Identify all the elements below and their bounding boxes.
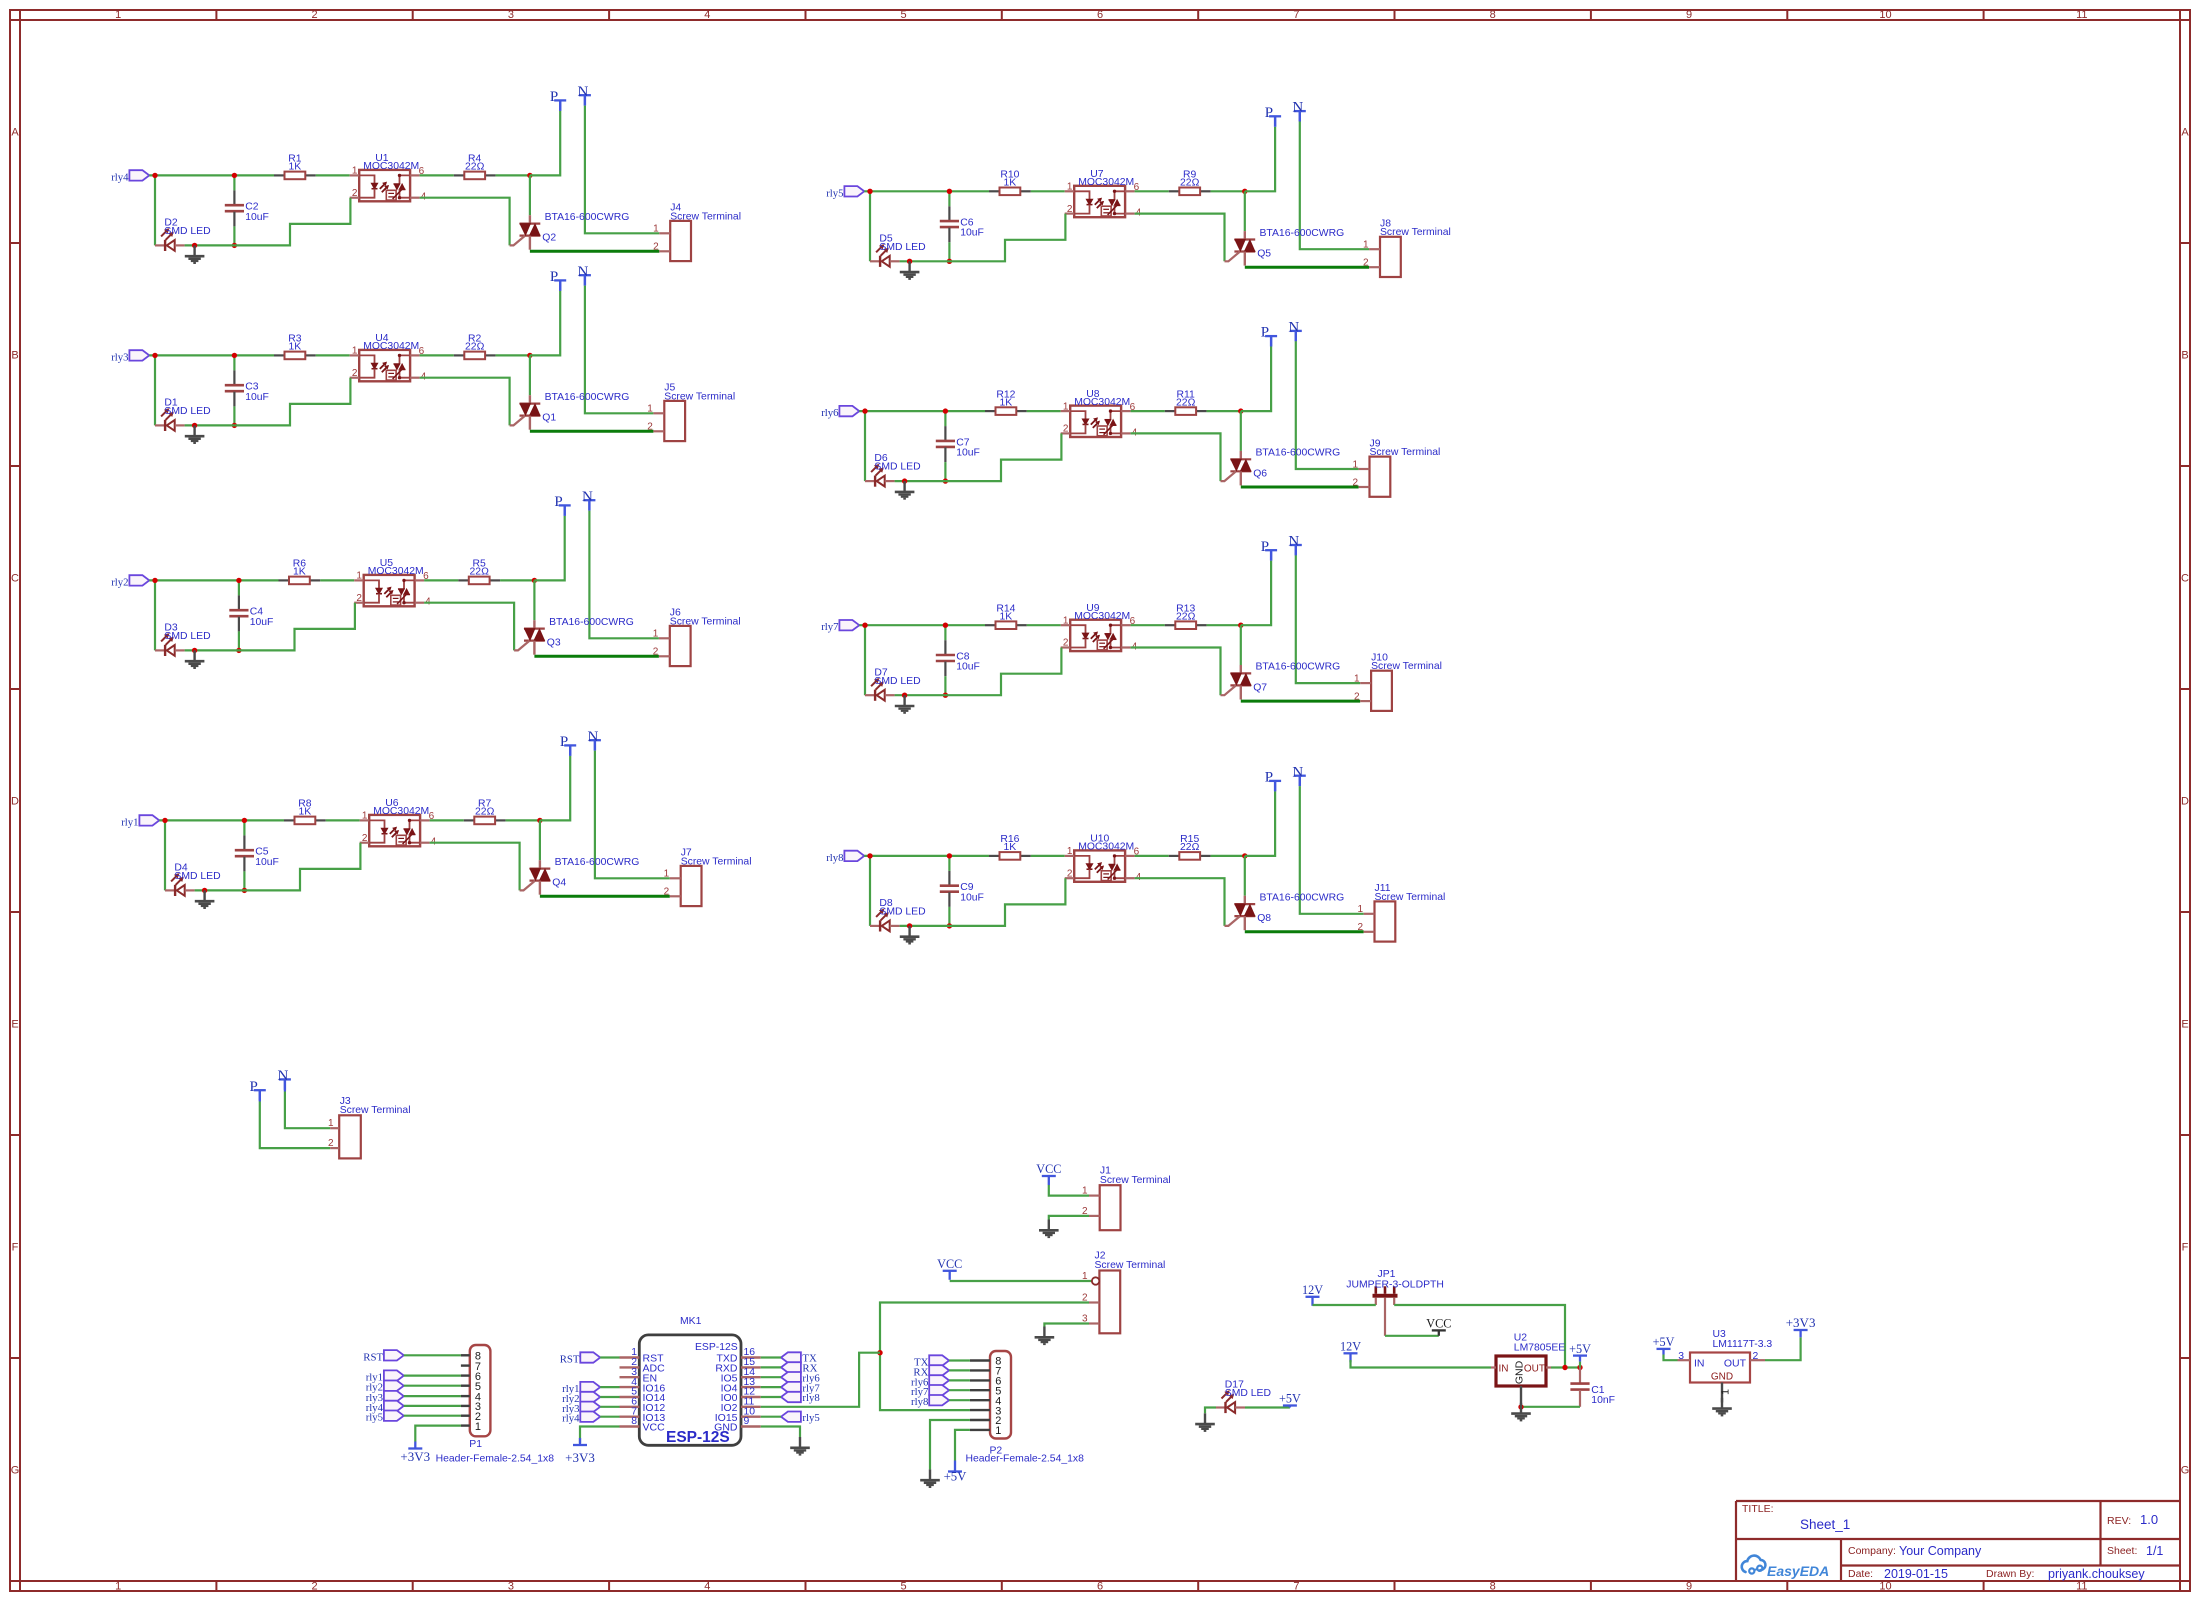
header P1 [436,1345,555,1465]
svg-text:10uF: 10uF [956,448,980,459]
svg-text:OUT: OUT [1524,1364,1545,1375]
wire [589,511,659,639]
svg-text:2019-01-15: 2019-01-15 [1884,1567,1948,1581]
wire [1240,625,1242,665]
wire [950,1280,1092,1282]
wire [1241,561,1271,626]
svg-text:2: 2 [311,9,317,21]
net flag rly6 [821,406,859,419]
wire [239,603,355,651]
svg-text:12V: 12V [1302,1283,1323,1297]
net flag rly2 [366,1381,404,1394]
svg-text:3: 3 [1678,1351,1684,1362]
junction [242,888,247,893]
svg-text:TITLE:: TITLE: [1742,1503,1774,1515]
svg-text:JP1: JP1 [1378,1269,1396,1280]
svg-text:Company:: Company: [1848,1545,1896,1557]
svg-text:P: P [550,269,558,285]
wire [1245,791,1275,856]
wire [949,1379,970,1381]
svg-text:SMD LED: SMD LED [164,406,210,417]
wire [424,579,458,581]
svg-text:MOC3042M: MOC3042M [363,341,419,352]
svg-text:BTA16-600CWRG: BTA16-600CWRG [545,392,630,403]
resistor R5 [458,559,500,584]
wire [1296,555,1360,683]
svg-text:SMD LED: SMD LED [874,676,920,687]
svg-text:N: N [587,729,598,745]
wire [1245,266,1369,269]
junction [943,408,948,413]
power flag N [587,729,600,751]
regulator U2 [1491,1333,1565,1407]
wire [285,1092,330,1129]
svg-text:GND: GND [1711,1372,1733,1383]
svg-text:8: 8 [1490,1581,1496,1593]
net flag TX [914,1355,949,1368]
svg-text:N: N [277,1068,288,1084]
net flag RX [913,1365,949,1378]
wire [864,411,866,481]
svg-text:22Ω: 22Ω [475,807,495,818]
svg-text:Screw Terminal: Screw Terminal [664,391,735,402]
wire [954,1461,956,1472]
wire [869,191,871,261]
wire [185,424,235,426]
wire [1207,410,1241,412]
svg-text:rly3: rly3 [111,351,128,363]
resistor R7 [464,799,506,824]
svg-text:2: 2 [1082,1292,1088,1303]
svg-text:Screw Terminal: Screw Terminal [1095,1260,1166,1271]
smd led D3 [155,623,211,657]
wire [945,648,1061,696]
svg-text:rly2: rly2 [111,576,128,588]
svg-text:BTA16-600CWRG: BTA16-600CWRG [555,857,640,868]
junction [947,853,952,858]
svg-text:1K: 1K [1000,397,1013,408]
wire [1244,856,1246,896]
svg-text:1: 1 [1063,615,1069,626]
module MK1 ESP-12S [620,1316,761,1446]
wire [539,820,541,860]
svg-text:1: 1 [352,346,358,357]
junction [943,478,948,483]
net flag rly7 [911,1385,949,1398]
svg-text:2: 2 [1067,868,1073,879]
capacitor C4 [229,580,273,650]
junction [902,478,907,483]
power flag +3V3 [1786,1315,1816,1337]
svg-text:1: 1 [328,1118,334,1129]
net flag rly8 [911,1395,949,1408]
wire [761,1386,781,1388]
svg-text:MOC3042M: MOC3042M [373,806,429,817]
power flag N [277,1068,290,1090]
junction [236,578,241,583]
triac Q2 [510,215,541,250]
wire [530,250,659,253]
wire [530,291,560,356]
resistor R11 [1165,389,1207,415]
svg-text:SMD LED: SMD LED [1225,1388,1271,1399]
svg-text:MOC3042M: MOC3042M [1078,842,1134,853]
wire [949,214,1065,262]
triac Q8 [1225,896,1256,931]
wire [864,625,866,695]
wire [534,516,564,581]
wire [1135,214,1225,262]
optocoupler U4 [350,333,427,383]
wire [1241,700,1360,703]
svg-text:1: 1 [1082,1186,1088,1197]
svg-text:2: 2 [352,188,358,199]
svg-text:2: 2 [1352,477,1358,488]
svg-text:Screw Terminal: Screw Terminal [1371,661,1442,672]
junction [1238,408,1243,413]
svg-text:MOC3042M: MOC3042M [368,566,424,577]
wire [600,1416,619,1418]
wire [496,354,530,356]
net flag RX [781,1362,818,1374]
smd led D5 [870,233,926,267]
wire [584,95,586,105]
svg-text:MOC3042M: MOC3042M [1074,611,1130,622]
wire [945,433,1061,481]
triac Q1 [510,395,541,430]
power flag N [577,84,590,106]
power flag N [1288,320,1301,342]
triac Q7 [1221,665,1252,700]
svg-text:2: 2 [1082,1206,1088,1217]
wire [496,174,530,176]
junction [907,259,912,264]
power flag +3V3 [400,1442,430,1465]
ground [1039,1220,1059,1238]
svg-text:LM7805EE: LM7805EE [1514,1343,1565,1354]
wire [600,1386,619,1388]
junction [1242,189,1247,194]
resistor R9 [1169,170,1211,196]
wire [949,1359,970,1361]
svg-text:BTA16-600CWRG: BTA16-600CWRG [549,617,634,628]
power flag P [550,269,566,291]
svg-text:Screw Terminal: Screw Terminal [1380,227,1451,238]
power flag P [249,1079,265,1101]
net flag RST [363,1350,404,1363]
smd led D17 [1216,1380,1271,1414]
wire [404,1395,461,1397]
svg-text:MOC3042M: MOC3042M [1078,177,1134,188]
svg-text:6: 6 [1097,1581,1103,1593]
svg-text:1: 1 [1067,182,1073,193]
svg-text:BTA16-600CWRG: BTA16-600CWRG [545,212,630,223]
svg-text:JUMPER-3-OLDPTH: JUMPER-3-OLDPTH [1346,1280,1444,1291]
svg-text:rly4: rly4 [111,171,129,183]
net flag rly4 [562,1412,600,1425]
wire [1044,1324,1089,1327]
wire [424,603,514,651]
svg-text:+5V: +5V [1653,1335,1675,1349]
svg-text:RST: RST [560,1354,580,1366]
wire [404,1405,461,1407]
junction [862,408,867,413]
svg-text:10: 10 [1879,1581,1891,1593]
wire [580,1427,620,1444]
svg-text:1.0: 1.0 [2140,1512,2158,1527]
svg-text:2: 2 [653,647,659,658]
wire [415,1426,461,1442]
svg-text:1: 1 [1357,904,1363,915]
svg-text:11: 11 [2076,9,2087,21]
triac Q5 [1225,231,1256,266]
wire [559,100,561,110]
capacitor C1 [1570,1368,1615,1407]
svg-text:MOC3042M: MOC3042M [363,161,419,172]
svg-text:N: N [577,264,588,280]
wire [594,740,596,750]
wire [859,410,985,412]
svg-text:GND: GND [1514,1360,1526,1384]
svg-text:ESP-12S: ESP-12S [695,1342,738,1353]
net flag rly3 [562,1402,600,1415]
svg-text:22Ω: 22Ω [465,342,485,353]
svg-text:Header-Female-2.54_1x8: Header-Female-2.54_1x8 [436,1454,555,1465]
optocoupler U10 [1065,834,1142,884]
junction [162,818,167,823]
svg-text:1K: 1K [1004,842,1017,853]
wire [149,579,278,581]
power flag VCC [1426,1317,1451,1336]
optocoupler U5 [354,558,431,608]
junction [877,1350,882,1355]
wire [420,354,454,356]
wire [420,174,454,176]
wire [564,505,566,515]
svg-text:OUT: OUT [1724,1358,1747,1370]
wire [761,1366,781,1368]
svg-text:+5V: +5V [1279,1392,1301,1406]
wire [404,1374,461,1376]
svg-text:+3V3: +3V3 [400,1449,430,1464]
wire [949,1369,970,1371]
svg-text:Screw Terminal: Screw Terminal [1370,447,1441,458]
svg-text:1: 1 [1354,674,1360,685]
capacitor C5 [235,820,279,890]
junction [1518,1404,1523,1409]
svg-text:rly5: rly5 [366,1412,383,1424]
svg-text:BTA16-600CWRG: BTA16-600CWRG [1256,448,1341,459]
power flag 12V [1340,1340,1361,1363]
svg-text:N: N [577,84,588,100]
power flag P [1265,105,1281,127]
wire [1241,486,1359,489]
junction [867,189,872,194]
wire [864,190,989,192]
wire [1027,624,1061,626]
svg-text:2: 2 [1063,424,1069,435]
svg-text:2: 2 [356,593,362,604]
svg-text:1/1: 1/1 [2146,1544,2163,1558]
ground [1712,1398,1732,1416]
junction [862,623,867,628]
svg-text:2: 2 [653,242,659,253]
svg-text:+3V3: +3V3 [565,1450,595,1465]
svg-text:P: P [1261,539,1269,555]
wire [154,355,156,425]
svg-text:VCC: VCC [1426,1317,1451,1331]
junction [202,888,207,893]
wire [234,378,350,426]
smd led D1 [155,398,211,432]
svg-text:rly7: rly7 [821,621,839,633]
net flag rly8 [781,1392,820,1404]
junction [152,578,157,583]
capacitor C6 [940,191,984,261]
svg-text:1: 1 [356,571,362,582]
svg-text:MOC3042M: MOC3042M [1074,397,1130,408]
wire [430,843,520,891]
wire [1385,1335,1439,1337]
power flag P [1261,539,1277,561]
wire [1131,433,1221,481]
svg-text:10uF: 10uF [956,662,980,673]
svg-text:10uF: 10uF [255,857,279,868]
svg-text:SMD LED: SMD LED [164,226,210,237]
screw terminal J10 [1354,652,1442,711]
net flag rly4 [366,1401,404,1414]
svg-text:rly5: rly5 [826,187,843,199]
svg-text:10uF: 10uF [960,228,984,239]
svg-text:EasyEDA: EasyEDA [1767,1563,1829,1579]
wire [540,895,670,898]
junction [943,623,948,628]
svg-text:Q3: Q3 [547,638,561,649]
wire [326,819,360,821]
svg-text:A: A [2181,127,2189,139]
svg-text:9: 9 [744,1416,750,1427]
power flag N [1292,764,1305,786]
svg-text:1: 1 [1720,1389,1732,1395]
svg-text:2: 2 [1753,1351,1759,1362]
svg-text:BTA16-600CWRG: BTA16-600CWRG [1260,892,1345,903]
svg-text:IN: IN [1499,1364,1509,1375]
regulator U3 [1678,1329,1773,1403]
wire [585,286,654,414]
wire [1551,1366,1580,1368]
resistor R1 [274,154,316,180]
svg-text:BTA16-600CWRG: BTA16-600CWRG [1256,662,1341,673]
svg-text:C: C [2181,573,2189,585]
wire [1300,786,1364,914]
wire [949,878,1065,926]
svg-text:5: 5 [901,9,907,21]
wire [1579,1362,1581,1368]
wire [316,354,350,356]
svg-text:9: 9 [1686,9,1692,21]
svg-text:SMD LED: SMD LED [164,631,210,642]
wire [880,1303,1089,1411]
svg-text:22Ω: 22Ω [470,567,490,578]
wire [1244,191,1246,231]
junction [902,693,907,698]
junction [232,423,237,428]
capacitor C9 [940,856,984,926]
wire [244,843,360,891]
svg-text:rly4: rly4 [562,1413,580,1425]
svg-text:5: 5 [901,1581,907,1593]
wire [1131,624,1165,626]
junction [867,853,872,858]
svg-text:7: 7 [1293,1581,1299,1593]
svg-text:1: 1 [1067,846,1073,857]
svg-text:Q4: Q4 [552,878,566,889]
svg-text:2: 2 [647,422,653,433]
svg-text:10uF: 10uF [245,392,269,403]
wire [1245,930,1364,933]
svg-text:Q8: Q8 [1257,913,1271,924]
wire [420,378,510,426]
power flag +5V [1279,1392,1301,1408]
svg-text:1: 1 [647,404,653,415]
net flag RST [560,1352,601,1365]
wire [404,1385,461,1387]
svg-text:P: P [560,734,568,750]
smd led D6 [865,453,921,487]
power flag +5V [1569,1342,1591,1362]
ground [195,890,215,908]
svg-text:2: 2 [1354,692,1360,703]
wire [1313,1304,1376,1306]
wire [1296,341,1359,469]
resistor R4 [454,154,496,180]
svg-text:10uF: 10uF [960,892,984,903]
svg-text:22Ω: 22Ω [1176,397,1196,408]
wire [1135,855,1169,857]
svg-text:1K: 1K [293,567,306,578]
svg-text:Q5: Q5 [1257,249,1271,260]
wire [1765,1337,1801,1360]
svg-text:2: 2 [362,833,368,844]
power flag N [1292,100,1305,122]
wire [1135,878,1225,926]
wire [1027,410,1061,412]
svg-text:E: E [2181,1019,2188,1031]
svg-text:P: P [550,89,558,105]
power flag P [550,89,566,111]
smd led D4 [165,863,221,897]
screw terminal J8 [1363,219,1451,278]
wire [164,820,166,890]
wire [900,925,950,927]
optocoupler U8 [1061,389,1138,439]
wire [185,244,235,246]
wire [1270,550,1272,560]
power flag VCC [1036,1162,1061,1185]
junction [236,648,241,653]
resistor R12 [985,389,1027,415]
wire [533,580,535,620]
wire [1295,545,1297,555]
svg-text:rly1: rly1 [121,816,138,828]
net flag rly7 [821,620,859,633]
svg-text:Screw Terminal: Screw Terminal [681,856,752,867]
wire [1245,127,1275,192]
svg-text:MK1: MK1 [680,1316,702,1327]
svg-text:1: 1 [1352,459,1358,470]
svg-text:Sheet_1: Sheet_1 [1800,1517,1850,1532]
svg-text:Drawn By:: Drawn By: [1986,1568,2034,1580]
